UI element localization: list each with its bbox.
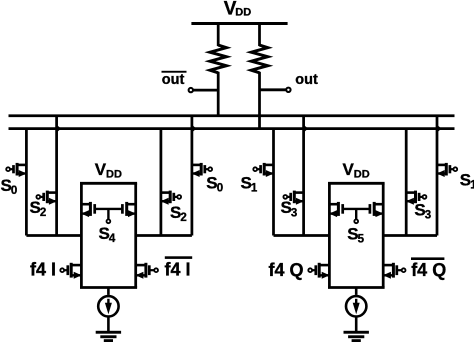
transistor S5 right of pair (block Q) <box>369 202 384 217</box>
net label f4 Qbar <box>411 257 446 280</box>
svg-text:DD: DD <box>354 169 370 181</box>
ground (block Q) <box>344 331 369 342</box>
transistor S2 left switch (block I) <box>36 191 56 205</box>
svg-text:0: 0 <box>217 183 223 195</box>
net label S0 (left, block I) <box>1 176 18 197</box>
current source IQ <box>346 296 366 331</box>
transistor M1 f4 Q input (block Q) <box>308 263 329 279</box>
svg-text:4: 4 <box>109 233 116 245</box>
svg-text:2: 2 <box>180 212 186 224</box>
svg-text:out: out <box>162 72 185 88</box>
wire S4 gate net (block I) <box>95 209 123 219</box>
wire column S3 left (block Q) <box>302 116 305 236</box>
wire right branch (block Q) <box>382 183 385 287</box>
net label S0 (right, block I) <box>206 174 223 195</box>
wire outbar tap <box>193 89 219 92</box>
svg-text:5: 5 <box>358 234 365 246</box>
transistor M2 f4 Ibar input (block I) <box>136 263 159 279</box>
wire column S0 right (block I) <box>191 116 194 236</box>
net label S1 (right, block Q) <box>460 170 474 191</box>
wire column S2 right (block I) <box>160 129 163 236</box>
wire lower bus (out net) <box>9 127 455 130</box>
svg-text:f4 I: f4 I <box>30 260 56 280</box>
svg-text:2: 2 <box>40 207 46 219</box>
wire jump over lower bus (S0 right, block I) <box>191 124 196 133</box>
node out terminal <box>286 88 290 92</box>
transistor S4 right of pair (block I) <box>121 202 136 217</box>
wire S5 gate net (block Q) <box>343 209 370 219</box>
svg-text:0: 0 <box>11 185 17 197</box>
net label S4 (block I) <box>99 224 116 245</box>
node S4 gate terminal (block I) <box>107 219 111 223</box>
wire column S2 left (block I) <box>55 116 58 236</box>
transistor S3 left switch (block Q) <box>283 191 303 205</box>
ground (block I) <box>96 331 121 342</box>
wire right output node (block Q) <box>383 234 437 237</box>
power rail VDD (block Q) <box>328 182 385 185</box>
wire column S1 right (block Q) <box>436 116 439 236</box>
net label S1 (left, block Q) <box>241 174 258 195</box>
svg-text:1: 1 <box>470 180 474 192</box>
net label S2 (left, block I) <box>30 198 47 219</box>
node S5 gate terminal (block Q) <box>354 219 358 223</box>
svg-text:f4 I: f4 I <box>165 260 191 280</box>
wire jump over lower bus (S1 right, block Q) <box>436 124 441 133</box>
svg-text:f4 Q: f4 Q <box>269 260 304 280</box>
wire left branch (block I) <box>80 183 83 287</box>
wire left output node (block I) <box>26 234 81 237</box>
transistor S1 left switch (block Q) <box>253 163 273 177</box>
svg-text:f4 Q: f4 Q <box>411 260 446 280</box>
net label S2 (right, block I) <box>170 203 187 224</box>
wire column S1 left (block Q) <box>272 129 275 236</box>
power rail VDD (top) <box>191 22 287 25</box>
transistor S5 left of pair (block Q) <box>329 202 344 217</box>
transistor S0 left switch (block I) <box>6 163 26 177</box>
transistor S0 right switch (block I) <box>192 163 212 177</box>
current source II <box>98 296 118 331</box>
svg-text:DD: DD <box>235 7 251 19</box>
net label f4 Ibar <box>165 256 193 279</box>
wire upper bus (outbar net) <box>9 114 455 117</box>
net label S5 (block Q) <box>347 224 364 245</box>
net label outbar <box>162 71 187 88</box>
wire left branch (block Q) <box>328 183 331 287</box>
wire out tap <box>260 88 286 91</box>
svg-text:3: 3 <box>425 210 431 222</box>
svg-text:V: V <box>95 160 107 179</box>
svg-text:DD: DD <box>106 169 122 181</box>
transistor S4 left of pair (block I) <box>81 202 96 217</box>
wire right branch (block I) <box>134 183 137 287</box>
wire tail node (block I) <box>80 288 137 295</box>
transistor S1 right switch (block Q) <box>437 163 457 177</box>
wire column S0 left (block I) <box>25 129 28 236</box>
node outbar terminal <box>189 88 193 92</box>
wire jump over lower bus (S3 left, block Q) <box>303 124 308 133</box>
svg-text:out: out <box>295 72 318 88</box>
wire jump over lower bus (S2 left, block I) <box>56 124 61 133</box>
net label S3 (right, block Q) <box>414 200 431 221</box>
transistor S3 right switch (block Q) <box>406 191 426 205</box>
resistor R2 (load, out branch) <box>251 24 267 129</box>
wire right output node (block I) <box>136 234 192 237</box>
net label S3 (left, block Q) <box>281 198 298 219</box>
svg-text:1: 1 <box>251 183 258 195</box>
svg-text:V: V <box>343 160 355 179</box>
svg-text:3: 3 <box>291 207 297 219</box>
wire left output node (block Q) <box>274 234 330 237</box>
transistor S2 right switch (block I) <box>161 191 181 205</box>
wire column S3 right (block Q) <box>405 129 408 236</box>
transistor M2 f4 Qbar input (block Q) <box>383 263 406 279</box>
transistor M1 f4 I input (block I) <box>60 263 81 279</box>
power rail VDD (block I) <box>80 182 137 185</box>
resistor R1 (load, outbar branch) <box>210 24 226 116</box>
wire tail node (block Q) <box>328 288 385 295</box>
